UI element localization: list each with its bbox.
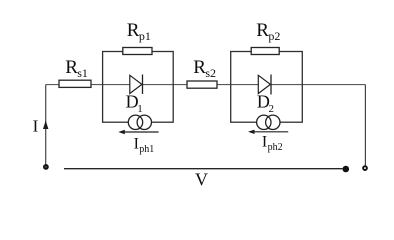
wire right vertical xyxy=(364,85,366,166)
svg-text:p1: p1 xyxy=(139,29,151,43)
resistor Rp1 xyxy=(123,48,152,55)
arrow Iph2 (left) xyxy=(248,130,288,134)
arrow Iph1 (left) xyxy=(118,130,158,134)
wire bottom V bus xyxy=(64,168,343,170)
svg-text:ph2: ph2 xyxy=(268,142,283,153)
terminal left (node) xyxy=(44,165,48,169)
svg-text:1: 1 xyxy=(137,103,143,115)
svg-text:I: I xyxy=(134,135,139,152)
svg-text:ph1: ph1 xyxy=(139,144,154,155)
current source Iph2 xyxy=(257,115,280,129)
svg-text:I: I xyxy=(262,133,267,150)
svg-text:I: I xyxy=(33,117,39,136)
svg-text:s2: s2 xyxy=(205,66,216,80)
svg-text:R: R xyxy=(256,20,269,41)
cell 2 loop box xyxy=(231,52,303,123)
diode D2 xyxy=(258,75,271,95)
cell 1 loop box xyxy=(103,52,174,123)
current arrow I (up) xyxy=(43,121,48,130)
svg-text:R: R xyxy=(127,20,140,41)
svg-text:V: V xyxy=(195,170,208,190)
resistor Rp2 xyxy=(251,48,279,55)
terminal right (node) xyxy=(363,166,367,170)
svg-text:2: 2 xyxy=(269,103,275,115)
wire left vertical xyxy=(45,85,47,165)
resistor Rs2 xyxy=(187,81,217,88)
junction dot at end of V bus xyxy=(343,166,350,173)
resistor Rs1 xyxy=(59,80,91,87)
wire main horizontal bus xyxy=(46,84,366,86)
svg-text:R: R xyxy=(193,57,206,78)
svg-text:s1: s1 xyxy=(77,66,88,80)
svg-text:p2: p2 xyxy=(268,29,280,43)
diode D1 xyxy=(130,75,143,95)
current source Iph1 xyxy=(128,115,151,129)
